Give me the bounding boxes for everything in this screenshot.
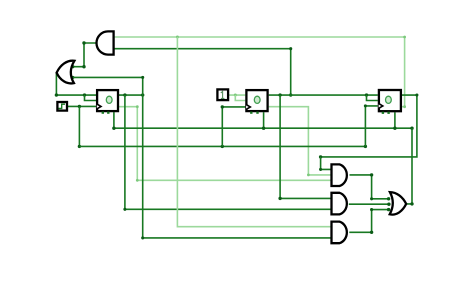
or-gate O2 (east facing)	[390, 192, 407, 214]
flip-flop FF1 clock triangle	[97, 104, 101, 109]
wire: FF1 Q output	[119, 94, 143, 96]
wire: clock rail drop	[78, 106, 80, 146]
node: light corner (308.4,174.9)	[307, 174, 310, 177]
wire: stub to FF1 second pin	[85, 95, 97, 100]
flip-flop FF2 clock triangle	[246, 105, 250, 110]
node: junction (412,203.9)	[410, 202, 413, 205]
node: light junction at (235.3,95.05)	[234, 94, 237, 97]
node: light corner (404.6,37)	[403, 36, 406, 39]
node: pin (388.6,209.6)	[387, 208, 390, 211]
flip-flop FF2 state label 0	[254, 96, 260, 103]
wire: light branch down to AND A4 input	[177, 37, 331, 227]
node: corner (412,128.2)	[410, 127, 413, 130]
node: corner (113.9,128.2)	[112, 127, 115, 130]
and-gate A2 (east facing, top right)	[332, 164, 347, 186]
wire: OR O2 output riser	[406, 128, 412, 204]
node: junction (124.9,95.05)	[123, 93, 126, 96]
node: corner (320.6,169.4)	[319, 168, 322, 171]
wire: AND A3 output to OR O2 input 2	[349, 203, 389, 205]
node: corner (56.4,95.05)	[55, 93, 58, 96]
flip-flop FF2 bottom pins	[250, 112, 252, 114]
node: corner (416.9,95.05)	[415, 94, 418, 97]
clock input CLK glyph	[59, 104, 66, 108]
wire: drop to AND A2 top input	[321, 157, 331, 170]
node: corner (290.7,48.7)	[289, 47, 292, 50]
wire: stub to FF3 second pin	[367, 95, 378, 100]
and-gate A1 (west facing, top left)	[97, 31, 114, 54]
node: OR O1 input pin 1	[71, 65, 74, 68]
node: pin (388.9,204.2)	[387, 203, 390, 206]
node: light corner (137.3,106.7)	[136, 105, 139, 108]
wire: FF3 bottom drop	[394, 112, 396, 128]
wire: FF3 /Q feedback light to AND A1 top input	[114, 37, 405, 107]
and-gate A3 (east facing, middle right)	[332, 193, 347, 215]
wire: OR O1 output down to FF1 D row	[56, 73, 96, 95]
wire: FF1 /Q light to AND A2 input	[119, 107, 331, 181]
input pin IN1 box	[217, 89, 228, 100]
node: corner (371.6,174.9)	[370, 173, 373, 176]
flip-flop FF2 box	[246, 90, 267, 111]
wire: AND A1 lower input from FF2 Q	[114, 49, 291, 95]
node: light corner (404.6,106.7)	[403, 105, 406, 108]
wire: clock pin to FF1 clock	[68, 105, 96, 107]
node: corner (280.1,198.4)	[278, 197, 281, 200]
wire: FF2 Q branch to AND A3 top input	[280, 95, 331, 198]
node: corner (371.6,198.8)	[370, 197, 373, 200]
wire: clock riser to FF3	[365, 106, 377, 146]
input pin IN1 label 1	[221, 91, 225, 98]
flip-flop FF1 box	[97, 90, 118, 111]
flip-flop FF3 box	[379, 90, 401, 111]
node: junction (84.5,95.05)	[83, 93, 86, 96]
wire: AND A2 output to OR O2 input 1	[350, 175, 389, 199]
node: junction (79.4,106.4)	[78, 105, 81, 108]
node: corner (365.4,146.4)	[364, 145, 367, 148]
node: corner (142.7,237.9)	[141, 236, 144, 239]
wire: AND A4 output to OR O2 input 3	[349, 210, 388, 233]
flip-flop FF3 state label 0	[386, 96, 392, 103]
node: corner (371.6,232.3)	[370, 231, 373, 234]
node: corner (371.6,209.6)	[370, 208, 373, 211]
node: pin (388.6,198.8)	[387, 197, 390, 200]
node: OR O1 input pin 2	[71, 76, 74, 79]
node: corner (142.7,77.4)	[141, 76, 144, 79]
and-gate A4 (east facing, bottom right)	[332, 222, 347, 244]
node: corner (84,43)	[82, 41, 85, 44]
wire: clock rail horizontal	[79, 145, 365, 147]
flip-flop FF3 clock triangle	[379, 104, 383, 109]
wire: AND A1 output to OR O1 input 1	[73, 43, 97, 67]
wire: FF3 Q output down and back	[321, 95, 417, 157]
or-gate O1 (west facing)	[57, 61, 75, 84]
node: corner (84,66.7)	[82, 65, 85, 68]
node: junction (394.9,128.2)	[393, 127, 396, 130]
wire: clock riser to FF2	[222, 107, 245, 146]
node: corner (222.3,106.9)	[221, 105, 224, 108]
flip-flop FF1 state label 0	[106, 96, 112, 103]
node: corner (365.4,105.9)	[364, 104, 367, 107]
wire: FF1 Q branch to AND A3 lower input	[125, 95, 331, 209]
wire: FF2 bottom drop	[263, 112, 265, 128]
wire: FF2 Q to FF3 D	[269, 94, 378, 96]
node: corner (320.6,156.9)	[319, 155, 322, 158]
node: corner (124.9,209.3)	[123, 208, 126, 211]
node: junction (142.7,95.05)	[141, 93, 144, 96]
wire: reset rail from FF1 bottom	[114, 112, 412, 128]
node: light corner (137.3,180.3)	[136, 179, 139, 182]
wire: light stub to FF2 second pin	[235, 95, 245, 100]
wire: FF1 Q vertical to OR O1 input 2 and AND A4	[73, 77, 331, 238]
node: corner (79.4,146.4)	[78, 145, 81, 148]
node: junction (280.1,95.05)	[278, 93, 281, 96]
node: junction (290.7,95.05)	[289, 93, 292, 96]
flip-flop FF3 bottom pins	[382, 112, 384, 114]
clock input CLK box	[57, 102, 67, 111]
node: junction (222.3,146.4)	[221, 145, 224, 148]
wire: input pin IN1 light to FF2 D	[229, 94, 245, 96]
node: junction (263.6,128.2)	[262, 127, 265, 130]
node: light junction at (177.4,37)	[176, 36, 179, 39]
wire: FF2 /Q light to AND A2 middle input	[269, 107, 331, 175]
node: junction (366.5,95.05)	[365, 93, 368, 96]
flip-flop FF1 bottom pins	[102, 112, 104, 114]
